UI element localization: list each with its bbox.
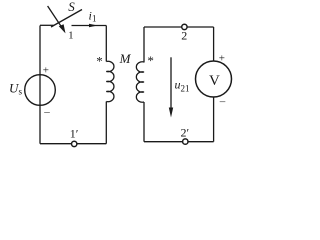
svg-text:s: s bbox=[19, 87, 23, 97]
voltmeter V bbox=[196, 61, 232, 97]
svg-text:–: – bbox=[43, 106, 50, 118]
node 2 terminal circle bbox=[182, 24, 187, 29]
svg-text:V: V bbox=[209, 73, 220, 89]
wire: left-loop right vertical upper bbox=[105, 26, 107, 62]
wire: right-loop right vertical lower bbox=[213, 97, 215, 142]
svg-text:+: + bbox=[219, 53, 225, 65]
wire: right-loop bottom bbox=[144, 141, 214, 143]
wire: right-loop left vertical upper bbox=[143, 27, 145, 63]
switch S blade bbox=[51, 10, 82, 28]
svg-text:M: M bbox=[119, 51, 132, 66]
svg-text:1: 1 bbox=[92, 14, 97, 24]
svg-text:21: 21 bbox=[181, 84, 190, 94]
inductor L2 (right coil) bbox=[136, 62, 144, 102]
voltage source Us bbox=[25, 75, 56, 106]
svg-text:–: – bbox=[219, 96, 226, 108]
current arrow i1 bbox=[89, 24, 98, 28]
voltage arrow u21 bbox=[169, 57, 173, 117]
svg-text:1: 1 bbox=[68, 30, 74, 42]
switch S closing arrow bbox=[48, 6, 66, 33]
svg-text:2′: 2′ bbox=[180, 126, 189, 140]
wire: left-loop bottom bbox=[40, 143, 106, 145]
node 1' terminal circle bbox=[72, 141, 77, 146]
node 2' terminal circle bbox=[183, 139, 188, 144]
svg-text:1′: 1′ bbox=[70, 127, 79, 141]
svg-text:*: * bbox=[96, 54, 103, 69]
svg-text:*: * bbox=[147, 53, 154, 68]
svg-text:2: 2 bbox=[181, 29, 187, 43]
wire: left-loop top after switch bbox=[72, 25, 107, 27]
svg-text:S: S bbox=[68, 0, 75, 14]
wire: left-loop top stub to switch bbox=[40, 24, 54, 26]
inductor L1 (left coil) bbox=[106, 61, 114, 101]
wire: right-loop right vertical upper bbox=[213, 27, 215, 61]
wire: right-loop left vertical lower bbox=[143, 102, 145, 142]
wire: left-loop right vertical lower bbox=[105, 102, 107, 144]
wire: right-loop top bbox=[144, 26, 214, 28]
wire: left-loop left vertical (through source) bbox=[39, 26, 41, 144]
svg-text:+: + bbox=[43, 65, 49, 77]
